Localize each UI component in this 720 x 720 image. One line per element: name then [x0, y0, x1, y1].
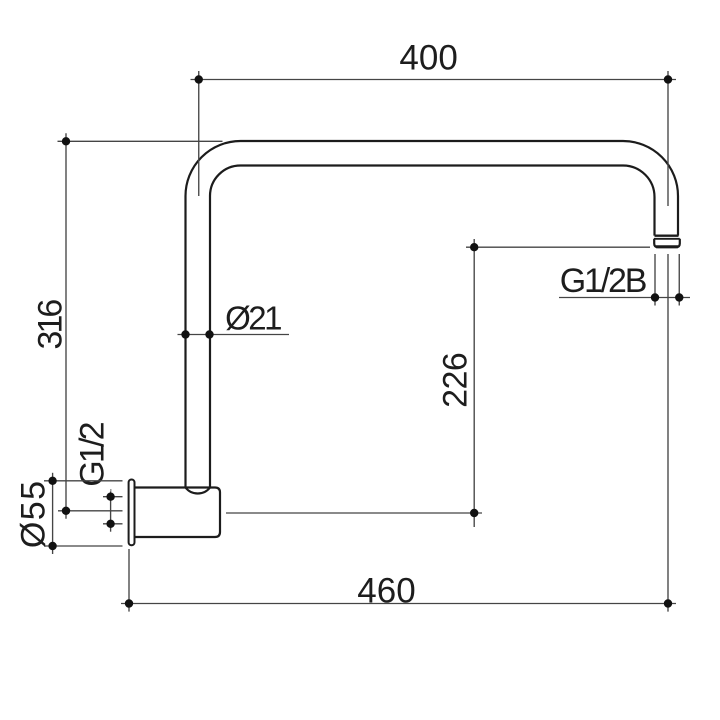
pipe-body saddle joint [186, 488, 211, 494]
dimension 400 right dot [664, 75, 672, 83]
dimension 226 top dot [470, 243, 478, 251]
dimension 226 top extension [466, 246, 650, 248]
dimension 400 right extension [667, 71, 669, 206]
dimension 460 left extension [128, 549, 130, 612]
dimension G1/2 label [74, 420, 112, 492]
dimension Ø55 bottom extension [44, 545, 123, 547]
shower arm pipe outline [186, 141, 679, 488]
pipe inner edge [210, 166, 655, 488]
svg-text:G1/2B: G1/2B [560, 262, 646, 300]
dimension 400 left extension [198, 71, 200, 196]
dimension 316 top dot [62, 137, 70, 145]
body cylinder [134, 488, 220, 538]
dimension Ø55 top extension [44, 480, 123, 482]
svg-text:G1/2: G1/2 [74, 422, 112, 486]
nozzle collar [654, 239, 680, 247]
dimension 316 top extension [58, 140, 223, 142]
dimension 316 bottom dot [62, 507, 70, 515]
dimension G1/2 bottom dot [106, 520, 114, 528]
dimension 316 bottom extension [58, 510, 123, 512]
dimension 226 line [473, 239, 475, 527]
dimension 460 left dot [125, 599, 133, 607]
svg-text:460: 460 [357, 571, 415, 610]
dimension G1/2 bottom tick [103, 523, 123, 525]
dimension G1/2B left dot [651, 293, 659, 301]
dimension 226 bottom extension [226, 512, 482, 514]
dimension Ø55 bottom dot [48, 542, 56, 550]
dimension 226 bottom dot [470, 509, 478, 517]
dimension G1/2B right dot [675, 293, 683, 301]
dimension Ø55 line [52, 473, 54, 554]
dimension 460 right extension [667, 254, 669, 612]
wall flange [129, 480, 135, 546]
dimension G1/2B line [559, 297, 690, 299]
dimension G1/2 line [110, 489, 112, 532]
dimension Ø55 top dot [48, 477, 56, 485]
dimension G1/2B right extension [678, 254, 680, 306]
dimension G1/2 top dot [106, 493, 114, 501]
dimension 400 left dot [195, 75, 203, 83]
dimension 460 line [121, 603, 676, 605]
nozzle collar thick bottom [656, 245, 678, 248]
dimension 460 right dot [664, 599, 672, 607]
svg-text:Ø55: Ø55 [15, 479, 53, 548]
nozzle pipe end line [655, 234, 679, 236]
svg-text:400: 400 [399, 39, 457, 78]
nozzle thin band line [654, 238, 680, 240]
svg-text:316: 316 [32, 300, 70, 350]
svg-text:226: 226 [436, 353, 474, 408]
dimension Ø21 right dot [205, 330, 213, 338]
dimension Ø21 line [178, 334, 290, 336]
svg-text:Ø21: Ø21 [225, 300, 281, 337]
dimension Ø21 left dot [181, 330, 189, 338]
dimension 400 line [191, 79, 677, 81]
dimension G1/2B left extension [654, 254, 656, 306]
dimension G1/2 top tick [103, 496, 123, 498]
dimension 316 line [65, 133, 67, 519]
